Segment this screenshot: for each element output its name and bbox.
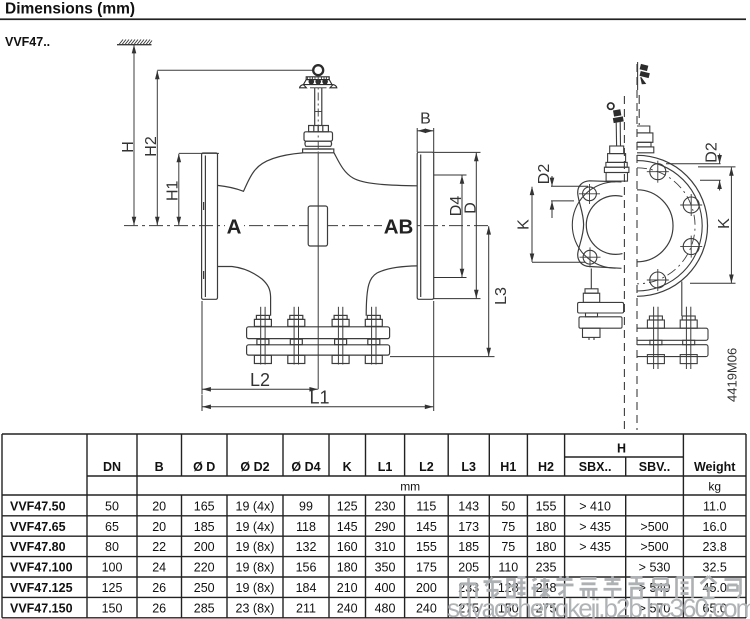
svg-text:110: 110 (498, 561, 518, 575)
valve body outline (218, 153, 418, 316)
dimension D (434, 152, 481, 298)
svg-text:mm: mm (400, 480, 420, 494)
svg-text:19 (8x): 19 (8x) (236, 561, 275, 575)
svg-text:173: 173 (458, 520, 479, 534)
left half: bore circle (586, 196, 622, 255)
svg-text:19 (8x): 19 (8x) (236, 581, 275, 595)
svg-text:SBX..: SBX.. (579, 460, 612, 474)
dimension H1 (179, 153, 219, 225)
svg-text:235: 235 (536, 561, 557, 575)
svg-text:230: 230 (375, 499, 396, 513)
packing gland nuts (309, 126, 329, 132)
svg-text:290: 290 (375, 520, 396, 534)
svg-text:19 (8x): 19 (8x) (236, 540, 275, 554)
table frame horizontals (2, 433, 746, 435)
spacer nuts (257, 339, 380, 344)
svg-text:285: 285 (194, 601, 215, 615)
dimension L1 (202, 301, 434, 411)
svg-text:4419M06: 4419M06 (725, 348, 740, 402)
svg-text:99: 99 (299, 499, 313, 513)
svg-text:125: 125 (337, 499, 358, 513)
svg-text:DN: DN (103, 460, 121, 474)
svg-text:75: 75 (501, 540, 515, 554)
svg-text:L2: L2 (419, 460, 434, 474)
right half: stem (solid top, dashes below) (638, 62, 640, 125)
right half: outer flange arc (637, 155, 708, 296)
svg-text:K: K (716, 218, 733, 229)
svg-text:155: 155 (416, 540, 437, 554)
svg-text:23 (8x): 23 (8x) (236, 601, 275, 615)
svg-text:Ø D4: Ø D4 (291, 460, 320, 474)
right half: stem indicator on cut line (637, 64, 651, 84)
flange AB (right) (417, 152, 434, 299)
svg-text:20: 20 (152, 499, 166, 513)
right half: bolt holes (647, 161, 702, 291)
svg-text:118: 118 (296, 520, 316, 534)
svg-text:11.0: 11.0 (703, 499, 726, 513)
svg-text:26: 26 (152, 601, 166, 615)
svg-text:185: 185 (194, 520, 215, 534)
left half: bolt hole bottom (580, 247, 601, 267)
svg-text:VVF47.125: VVF47.125 (10, 581, 73, 595)
svg-text:D2: D2 (704, 142, 721, 163)
svg-text:125: 125 (102, 581, 123, 595)
svg-text:B: B (420, 111, 431, 128)
dimension H (133, 45, 135, 225)
svg-text:165: 165 (194, 499, 215, 513)
vertical center stem line (317, 153, 319, 389)
svg-text:Weight: Weight (694, 460, 736, 474)
svg-text:50: 50 (501, 499, 515, 513)
left dimension K (532, 187, 585, 263)
svg-text:115: 115 (416, 499, 436, 513)
left half: bonnet stack (604, 146, 629, 181)
svg-text:D2: D2 (536, 164, 553, 185)
svg-text:19 (4x): 19 (4x) (236, 520, 275, 534)
svg-text:32.5: 32.5 (703, 561, 727, 575)
horizontal centerline (124, 225, 489, 227)
svg-text:H2: H2 (538, 460, 554, 474)
svg-text:400: 400 (375, 581, 396, 595)
left half: bottom flange assembly (578, 269, 624, 341)
svg-text:180: 180 (337, 561, 358, 575)
svg-text:> 530: > 530 (639, 561, 671, 575)
dimension D4 (434, 175, 467, 278)
svg-text:VVF47..: VVF47.. (5, 35, 50, 49)
svg-text:100: 100 (102, 561, 123, 575)
svg-text:211: 211 (296, 601, 316, 615)
right half: outlet neck edge (681, 282, 683, 317)
svg-text:L2: L2 (250, 370, 270, 390)
stem centerline (317, 77, 319, 153)
svg-text:> 435: > 435 (579, 520, 611, 534)
left half: stem (616, 122, 620, 146)
bottom bolted flange assembly (front) (247, 307, 390, 365)
svg-text:480: 480 (375, 601, 396, 615)
svg-text:150: 150 (102, 601, 123, 615)
svg-text:VVF47.150: VVF47.150 (10, 601, 73, 615)
section cut line (left half) (623, 96, 625, 430)
svg-text:L3: L3 (461, 460, 476, 474)
port label AB (382, 216, 415, 239)
svg-text:180: 180 (536, 520, 557, 534)
svg-text:145: 145 (416, 520, 437, 534)
svg-text:Ø D: Ø D (193, 460, 215, 474)
port label A (225, 216, 244, 239)
svg-text:175: 175 (416, 561, 437, 575)
plate 2 (247, 345, 390, 355)
dimension B (417, 128, 434, 152)
svg-text:K: K (515, 219, 532, 230)
bonnet (303, 132, 334, 153)
svg-text:K: K (343, 460, 352, 474)
svg-text:L1: L1 (309, 387, 329, 407)
svg-text:50: 50 (105, 499, 119, 513)
right half: bottom flange assembly (637, 307, 708, 369)
valve stem (315, 88, 322, 126)
svg-text:205: 205 (458, 561, 479, 575)
svg-text:VVF47.100: VVF47.100 (10, 561, 73, 575)
left half: flange plate outline (578, 181, 622, 268)
svg-text:240: 240 (337, 601, 358, 615)
table data rows (10, 499, 727, 615)
svg-text:180: 180 (536, 540, 557, 554)
svg-text:185: 185 (458, 540, 479, 554)
table header texts (103, 442, 736, 475)
valve stem knob (313, 65, 323, 75)
right half: bore arc (637, 190, 673, 262)
table verticals (1, 434, 3, 618)
svg-text:16.0: 16.0 (703, 520, 727, 534)
svg-text:350: 350 (375, 561, 396, 575)
right half: flange rim arc (637, 161, 702, 291)
dimension L2 (202, 301, 318, 394)
svg-text:VVF47.80: VVF47.80 (10, 540, 66, 554)
svg-text:200: 200 (194, 540, 215, 554)
studs (261, 307, 376, 365)
left half: bolt hole top (579, 184, 600, 204)
svg-text:145: 145 (337, 520, 358, 534)
svg-text:> 410: > 410 (579, 499, 611, 513)
svg-text:19 (4x): 19 (4x) (236, 499, 275, 513)
svg-text:SBV..: SBV.. (639, 460, 671, 474)
left half: raised face circle (572, 182, 615, 268)
svg-text:H1: H1 (500, 460, 516, 474)
svg-text:160: 160 (337, 540, 358, 554)
seat plug (308, 206, 327, 246)
svg-text:143: 143 (458, 499, 479, 513)
svg-text:H2: H2 (143, 136, 160, 157)
flange A (left) (202, 153, 218, 299)
svg-text:210: 210 (337, 581, 358, 595)
svg-text:240: 240 (416, 601, 437, 615)
FRONT VIEW GROUP (117, 40, 489, 226)
section cut line (right half) (636, 64, 638, 430)
left half: tilted stem indicator (607, 101, 623, 123)
right dimension K (690, 167, 736, 283)
svg-text:A: A (227, 216, 242, 239)
svg-text:> 435: > 435 (579, 540, 611, 554)
svg-text:Ø D2: Ø D2 (240, 460, 269, 474)
top nuts (254, 315, 382, 326)
dimension H2 (157, 70, 313, 225)
svg-text:D: D (462, 202, 479, 214)
svg-text:B: B (155, 460, 164, 474)
dimension L3 (front) (390, 226, 495, 356)
svg-text:AB: AB (384, 216, 414, 239)
svg-text:23.8: 23.8 (703, 540, 727, 554)
left dimension D2 (551, 176, 588, 218)
svg-text:H: H (617, 442, 626, 456)
plate 1 (247, 327, 390, 339)
svg-text:250: 250 (194, 581, 215, 595)
svg-text:24: 24 (152, 561, 166, 575)
svg-text:132: 132 (296, 540, 317, 554)
svg-text:75: 75 (501, 520, 515, 534)
svg-text:sdyaochengkeji.b2b.hc360.com: sdyaochengkeji.b2b.hc360.com (447, 593, 750, 619)
svg-text:310: 310 (375, 540, 396, 554)
svg-text:Dimensions (mm): Dimensions (mm) (5, 1, 135, 18)
svg-text:65: 65 (105, 520, 119, 534)
svg-text:200: 200 (416, 581, 437, 595)
svg-text:26: 26 (152, 581, 166, 595)
svg-text:220: 220 (194, 561, 215, 575)
svg-text:22: 22 (152, 540, 166, 554)
svg-text:80: 80 (105, 540, 119, 554)
svg-text:kg: kg (708, 480, 721, 494)
svg-text:156: 156 (296, 561, 317, 575)
right half: bolt circle (dash-dot) (637, 168, 695, 284)
svg-text:L1: L1 (378, 460, 393, 474)
svg-text:H1: H1 (164, 180, 181, 201)
svg-text:184: 184 (296, 581, 317, 595)
svg-text:L3: L3 (493, 287, 510, 305)
TABLE (2, 434, 746, 618)
right dimension D2 (666, 154, 721, 191)
svg-text:VVF47.50: VVF47.50 (10, 499, 66, 513)
right half: bonnet half blocks (637, 126, 654, 153)
unit row (400, 480, 721, 494)
title rule (0, 18, 746, 20)
svg-text:155: 155 (536, 499, 557, 513)
watermark company name (glyph blocks) (461, 576, 741, 598)
svg-text:VVF47.65: VVF47.65 (10, 520, 66, 534)
svg-text:>500: >500 (640, 540, 668, 554)
bottom nuts (254, 355, 382, 363)
svg-text:>500: >500 (640, 520, 668, 534)
wall hatch reference (117, 40, 152, 45)
stem top hat with indicator dots (300, 77, 337, 88)
svg-text:H: H (120, 141, 137, 153)
svg-text:20: 20 (152, 520, 166, 534)
